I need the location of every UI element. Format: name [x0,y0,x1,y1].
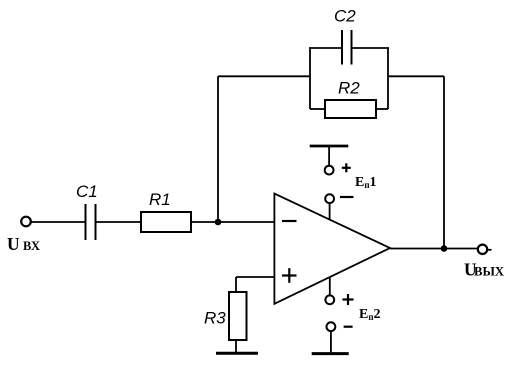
label R2 [338,79,360,98]
capacitor C1 [86,204,96,240]
wire output column vertical [443,76,445,248]
wire feedback vertical from node [217,76,219,222]
svg-text:R1: R1 [149,190,171,209]
svg-text:U: U [7,234,20,254]
wire feedback to output column [388,75,444,77]
supply rail bar E_p1 [310,145,349,148]
svg-text:R2: R2 [338,79,360,98]
svg-text:Eп2: Eп2 [359,307,381,322]
terminal E_p1 positive [325,166,334,175]
terminal output Uvyh [478,245,492,254]
label E_p1 [355,175,377,190]
label C2 [334,7,356,26]
resistor R2 [325,100,376,118]
label U vyh [464,260,504,280]
ground bar under R3 [216,352,258,355]
label C1 [76,182,98,201]
wire op-amp output [390,248,444,250]
wire left edge of C2/R2 parallel block [309,48,311,109]
wire op-amp non-inverting input to R3 [236,277,274,292]
wire C1 to R1 [97,221,142,223]
wire R3 to ground [235,340,237,352]
plus sign at bottom supply pin [342,294,353,305]
resistor R1 [141,212,191,232]
resistor R3 [229,292,247,340]
plus sign at E_p1 terminal [342,163,351,172]
wire top edge C2 to right [353,47,390,49]
label E_p2 [359,307,381,322]
op-amp top supply pin [325,194,334,219]
wire bottom edge R2 to right [376,108,388,110]
wire feedback horizontal to C2/R2 block [218,75,310,77]
svg-text:C1: C1 [76,182,98,201]
svg-text:Eп1: Eп1 [355,175,377,190]
svg-text:ВЫХ: ВЫХ [474,265,504,279]
wire right edge of C2/R2 parallel block [387,48,389,109]
wire to output terminal [444,248,478,250]
wire E_p2 terminal to ground bar [330,332,332,353]
minus sign at E_p2 terminal [344,326,353,328]
op-amp bottom supply pin [325,277,334,304]
terminal E_p2 negative [327,322,336,331]
svg-text:ВХ: ВХ [23,239,40,253]
wire bottom edge left to R2 [310,108,325,110]
wire R1 to op-amp inverting input [191,221,274,223]
terminal input Uvx [21,217,31,227]
op-amp inverting input minus sign [282,220,297,222]
capacitor C2 [342,30,352,65]
op-amp U1 [274,194,390,304]
svg-text:C2: C2 [334,7,356,26]
label R3 [204,309,226,328]
node junction output [441,245,448,252]
node junction input [215,219,222,226]
op-amp non-inverting input plus sign [282,268,297,283]
wire top edge left to C2 [309,47,342,49]
svg-text:R3: R3 [204,309,226,328]
label U vx [7,234,40,254]
wire input terminal to C1 [31,221,85,223]
minus sign at top supply pin [340,196,354,198]
wire bar to E_p1 terminal [328,147,330,166]
ground bar E_p2 [312,352,349,355]
label R1 [149,190,171,209]
